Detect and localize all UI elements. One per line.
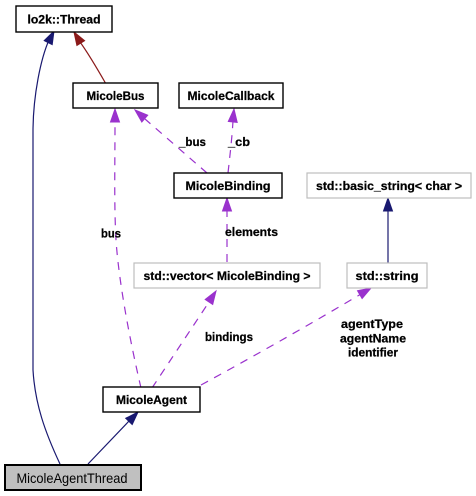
svg-text:_cb: _cb xyxy=(227,135,250,149)
node MicoleCallback xyxy=(179,83,283,108)
svg-text:std::string: std::string xyxy=(356,269,419,283)
svg-text:MicoleBinding: MicoleBinding xyxy=(186,179,271,193)
svg-text:agentType: agentType xyxy=(341,317,403,331)
svg-text:bindings: bindings xyxy=(205,330,253,344)
svg-text:MicoleAgentThread: MicoleAgentThread xyxy=(17,470,128,486)
node MicoleBus xyxy=(73,83,158,108)
node std::string xyxy=(347,263,427,288)
node std::vector< MicoleBinding > xyxy=(134,263,320,288)
edge MicoleAgent->MicoleBus (usage, dashed darkorchid) label bus xyxy=(111,109,142,388)
node MicoleAgentThread (focus node, grey fill) xyxy=(5,465,141,490)
node MicoleAgent xyxy=(103,387,200,412)
edge MicoleBus->lo2k::Thread (private inheritance, solid firebrick4) xyxy=(74,32,106,84)
svg-text:bus: bus xyxy=(101,227,121,241)
edge MicoleAgentThread->MicoleAgent (public inheritance, solid midnightblue) xyxy=(88,412,138,464)
node lo2k::Thread xyxy=(16,6,112,32)
edge MicoleAgent->std::string (usage, dashed darkorchid) label agentType agentName identifier xyxy=(201,288,371,385)
svg-text:MicoleBus: MicoleBus xyxy=(87,89,145,103)
svg-text:std::basic_string< char >: std::basic_string< char > xyxy=(316,179,462,193)
svg-text:MicoleCallback: MicoleCallback xyxy=(188,89,275,103)
node MicoleBinding xyxy=(174,173,282,198)
svg-text:std::vector< MicoleBinding >: std::vector< MicoleBinding > xyxy=(144,269,311,283)
node std::basic_string< char > xyxy=(307,173,471,198)
edge std::string->std::basic_string (public inheritance, solid midnightblue) xyxy=(384,198,393,263)
edge std::vector->MicoleBinding (usage, dashed darkorchid) label elements xyxy=(223,198,232,262)
edge MicoleAgentThread->lo2k::Thread (public inheritance, solid midnightblue) xyxy=(33,31,60,464)
edge MicoleBinding->MicoleCallback (usage, dashed darkorchid) label _cb xyxy=(228,109,237,173)
edge MicoleAgent->std::vector (usage, dashed darkorchid) label bindings xyxy=(152,291,216,388)
svg-text:MicoleAgent: MicoleAgent xyxy=(116,393,187,407)
svg-text:identifier: identifier xyxy=(348,346,398,360)
edge MicoleBinding->MicoleBus (usage, dashed darkorchid) label _bus xyxy=(135,110,207,173)
svg-text:elements: elements xyxy=(225,225,278,239)
svg-text:_bus: _bus xyxy=(178,135,206,149)
svg-text:lo2k::Thread: lo2k::Thread xyxy=(28,13,101,27)
svg-text:agentName: agentName xyxy=(340,332,406,346)
